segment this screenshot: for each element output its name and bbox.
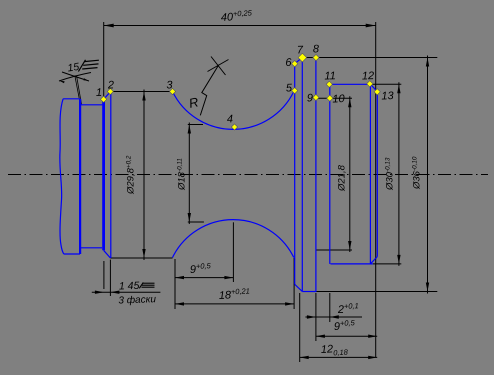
- dim d18 down arrow: [188, 213, 191, 222]
- dim 9 mid arrow left: [175, 276, 184, 279]
- dim d29.8 up arrow: [142, 92, 145, 101]
- face 8-9: [315, 58, 317, 292]
- dim 2 arrow left: [307, 315, 316, 318]
- chamfer symbol bar3: [142, 286, 155, 288]
- dim 9 mid arrow right: [224, 276, 233, 279]
- right end face 13: [376, 91, 378, 256]
- dim 9r arrow right: [368, 335, 377, 338]
- edge 2-3 top of d29.8: [111, 91, 173, 93]
- node 1 marker: [101, 96, 107, 102]
- svg-text:Ø21,8: Ø21,8: [337, 164, 348, 192]
- dim d36 down arrow: [426, 283, 429, 292]
- svg-text:9: 9: [307, 92, 314, 104]
- node 5 marker: [292, 88, 298, 94]
- face 12: [369, 84, 371, 264]
- dim d18 line: [188, 123, 190, 225]
- node 2 marker: [107, 88, 113, 94]
- line 9'-10' extended: [316, 249, 352, 251]
- dim 2 ext left: [315, 293, 317, 341]
- chamfer symbol bar1: [143, 282, 155, 284]
- node 11 marker: [326, 81, 332, 87]
- face 2-2prime: [110, 92, 112, 259]
- dim 18 ext right: [293, 258, 295, 309]
- angle arrow a: [60, 81, 65, 84]
- line 12 extension top: [370, 83, 402, 85]
- bottom edge blue segment: [302, 291, 316, 293]
- dim 9 mid line: [175, 277, 233, 279]
- dim 9r line: [316, 335, 377, 337]
- svg-text:13: 13: [381, 90, 395, 102]
- chamfer 1'-2': [104, 250, 111, 258]
- dim 9r arrow left: [316, 335, 325, 338]
- node 3 marker: [169, 88, 175, 94]
- dim 2 line: [305, 316, 362, 318]
- radius leader: [200, 65, 219, 116]
- chamfer symbol slash: [139, 282, 143, 288]
- chamfer dim line: [92, 291, 161, 293]
- svg-text:1 45: 1 45: [119, 280, 140, 293]
- face 5-6: [294, 64, 296, 285]
- dim 40 ext left: [103, 22, 105, 97]
- left step face: [79, 99, 81, 254]
- node 6 marker: [292, 61, 298, 67]
- svg-text:10: 10: [332, 93, 346, 105]
- flange top edge: [81, 104, 102, 106]
- edge 2'-3' bottom of d29.8: [110, 257, 172, 259]
- left section top edge: [63, 98, 79, 100]
- dim d18 up arrow: [188, 125, 191, 134]
- dim 2 arrow right: [330, 315, 339, 318]
- dim 18 arrow left: [175, 302, 184, 305]
- bottom edge extension: [316, 291, 437, 293]
- chamfer arrow left: [95, 291, 104, 294]
- svg-text:11: 11: [324, 70, 336, 82]
- chamfer ext line b: [109, 260, 111, 296]
- dim 9 mid ext right: [232, 222, 234, 282]
- dim 40 right arrow: [366, 24, 376, 28]
- roughness symbol slash: [78, 60, 85, 72]
- break wavy line: [60, 99, 64, 254]
- dim 40 line: [104, 25, 376, 27]
- left section bottom edge: [64, 253, 80, 255]
- node 4 marker: [231, 124, 237, 130]
- node 10 marker: [327, 95, 333, 101]
- node 13 marker: [374, 89, 380, 95]
- chamfer 12-13: [370, 84, 377, 91]
- dim d18 bottom tick: [188, 221, 204, 223]
- svg-text:2: 2: [107, 79, 115, 91]
- dim 18 arrow right: [285, 302, 294, 305]
- svg-text:1: 1: [96, 87, 103, 99]
- dim d29.8 down arrow: [142, 249, 145, 258]
- roughness symbol bar1: [84, 60, 99, 61]
- dim d29.8 line: [143, 90, 145, 261]
- node 12 marker: [367, 81, 373, 87]
- line 11-12: [330, 83, 370, 85]
- line 11'-12': [331, 263, 373, 265]
- dim d18 top tick: [188, 124, 203, 126]
- dim d21.8 line: [349, 96, 351, 252]
- svg-text:15: 15: [67, 61, 80, 75]
- dim 40 left arrow: [104, 24, 114, 28]
- angle leader a: [75, 76, 80, 99]
- dim 12 arrow left: [300, 356, 309, 359]
- svg-text:4: 4: [227, 113, 234, 125]
- chamfer ext line a: [103, 261, 105, 289]
- chamfer 12'-13': [370, 257, 377, 264]
- chamfer arrow right: [110, 291, 119, 294]
- neck arc bottom: [173, 220, 294, 258]
- chamfer symbol bar2: [142, 284, 155, 286]
- dim 12 arrow right: [368, 356, 377, 359]
- dim 12 line: [300, 356, 378, 358]
- centerline: [8, 174, 488, 176]
- angle leader b: [77, 76, 82, 104]
- node 7 marker: [298, 53, 307, 62]
- dim 12 ext left: [299, 293, 301, 362]
- flange bottom edge: [80, 247, 102, 249]
- dim d30 up arrow: [397, 84, 400, 93]
- dim 18 line: [175, 303, 294, 305]
- angle arrow b: [83, 78, 88, 81]
- line 12' extension bottom: [373, 263, 401, 265]
- dim d21.8 down arrow: [348, 241, 351, 250]
- chamfer 6'-7': [295, 284, 303, 291]
- dim d36 line: [427, 56, 429, 294]
- top edge 7-8 and extension: [302, 57, 437, 59]
- dim d36 up arrow: [426, 58, 429, 67]
- node 9 marker: [313, 94, 319, 100]
- angle cross stroke a: [59, 73, 91, 82]
- roughness symbol bar2: [83, 64, 98, 65]
- svg-text:12: 12: [362, 70, 375, 82]
- dim d21.8 up arrow: [348, 98, 351, 107]
- chamfer 6-7: [295, 58, 303, 64]
- dim 2 ext right: [329, 293, 331, 322]
- chamfer 1-2: [104, 92, 111, 100]
- node 8 marker: [313, 55, 319, 61]
- radius leader cross b: [211, 57, 226, 76]
- dim 40 ext right: [375, 22, 377, 358]
- dim 9 mid ext left: [174, 259, 176, 309]
- neck arc top: [173, 92, 294, 130]
- radius leader cross a: [208, 60, 229, 72]
- face 7: [301, 58, 303, 292]
- face 10-11: [329, 84, 331, 264]
- angle cross stroke b: [62, 72, 89, 81]
- dim d30 line: [398, 82, 400, 266]
- main face at node 1 (thick): [102, 99, 105, 250]
- line 9-10 extended: [316, 97, 352, 99]
- svg-text:3 фаски: 3 фаски: [118, 293, 156, 306]
- dim d30 down arrow: [397, 255, 400, 264]
- roughness symbol bar3: [82, 68, 97, 69]
